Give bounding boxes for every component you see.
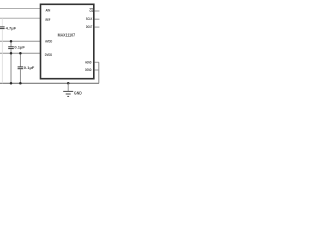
svg-text:DOUT: DOUT <box>86 25 93 29</box>
wire CS stub <box>95 10 100 12</box>
wire DOUT stub <box>95 26 100 28</box>
junction dot DVDD crossing <box>10 52 13 55</box>
wire AGND stub <box>95 61 100 63</box>
wire AIN net <box>0 8 41 10</box>
svg-text:GND: GND <box>74 91 82 96</box>
wire AGND/DGND down to ground bus <box>98 62 100 83</box>
junction dot DVDD-C3 <box>19 52 22 55</box>
op-amp U1 MAX11107 ADC box <box>41 4 94 78</box>
wire REF net <box>0 17 41 19</box>
svg-text:CS: CS <box>90 9 94 13</box>
wire DVDD net <box>0 52 41 54</box>
svg-text:4.7µF: 4.7µF <box>6 25 17 30</box>
junction dot AVDD-C2 <box>10 40 13 43</box>
wire DGND stub <box>95 69 100 71</box>
ground symbol <box>63 83 73 96</box>
svg-text:0.1µF: 0.1µF <box>24 65 35 70</box>
capacitor C2 0.1uF (AVDD bypass) <box>8 41 14 53</box>
capacitor C3 0.1uF (DVDD bypass) <box>18 53 24 83</box>
svg-text:AGND: AGND <box>85 61 92 65</box>
junction dot C3-bus <box>19 82 22 85</box>
capacitor C1 4.7uF (REF bypass) <box>0 18 5 83</box>
svg-text:REF: REF <box>46 18 51 22</box>
junction dot C2-bus <box>10 82 13 85</box>
svg-text:AVDD: AVDD <box>45 39 52 43</box>
wire ground bus <box>0 82 99 84</box>
svg-text:DGND: DGND <box>85 68 92 72</box>
svg-text:DVDD: DVDD <box>45 53 53 57</box>
wire AVDD net <box>0 40 41 42</box>
svg-text:0.1µF: 0.1µF <box>14 45 25 50</box>
background <box>0 0 100 100</box>
svg-text:SCLK: SCLK <box>86 17 93 21</box>
wire SCLK stub <box>95 18 100 20</box>
svg-text:AIN: AIN <box>46 8 51 12</box>
junction dot ground-bus <box>67 82 70 85</box>
wire C2 bottom to ground bus <box>10 53 12 83</box>
svg-text:MAX11107: MAX11107 <box>58 33 76 38</box>
